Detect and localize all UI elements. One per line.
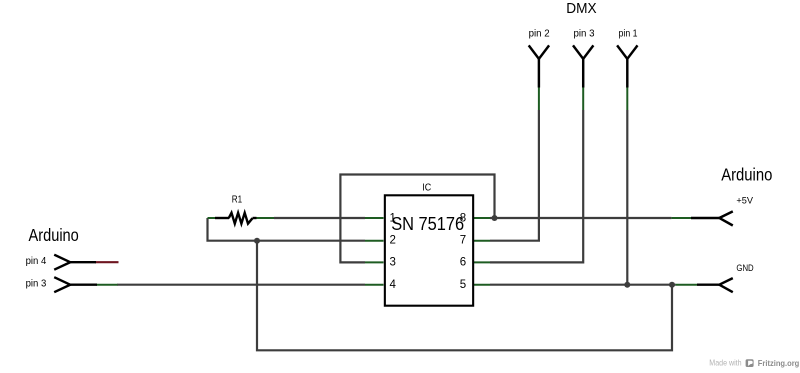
svg-text:3: 3 [390, 257, 396, 269]
svg-text:7: 7 [460, 234, 466, 246]
svg-text:+5V: +5V [736, 196, 753, 207]
svg-text:6: 6 [460, 257, 466, 269]
svg-text:pin 1: pin 1 [619, 29, 638, 40]
svg-text:pin 3: pin 3 [574, 29, 595, 40]
svg-text:pin 3: pin 3 [26, 279, 47, 290]
svg-text:Arduino: Arduino [721, 165, 772, 185]
svg-text:Made with: Made with [709, 358, 742, 368]
svg-text:pin 2: pin 2 [529, 29, 550, 40]
svg-text:5: 5 [460, 279, 466, 291]
svg-text:SN 75176: SN 75176 [391, 213, 464, 234]
svg-text:GND: GND [736, 263, 753, 274]
svg-text:pin 4: pin 4 [26, 256, 47, 267]
svg-text:Fritzing.org: Fritzing.org [758, 358, 800, 368]
svg-text:IC: IC [422, 181, 431, 193]
svg-text:2: 2 [390, 234, 396, 246]
svg-text:Arduino: Arduino [29, 225, 79, 245]
svg-text:4: 4 [390, 279, 397, 291]
svg-text:DMX: DMX [566, 0, 596, 17]
svg-text:R1: R1 [232, 194, 243, 205]
svg-text:1: 1 [390, 212, 396, 224]
svg-text:8: 8 [460, 212, 466, 224]
